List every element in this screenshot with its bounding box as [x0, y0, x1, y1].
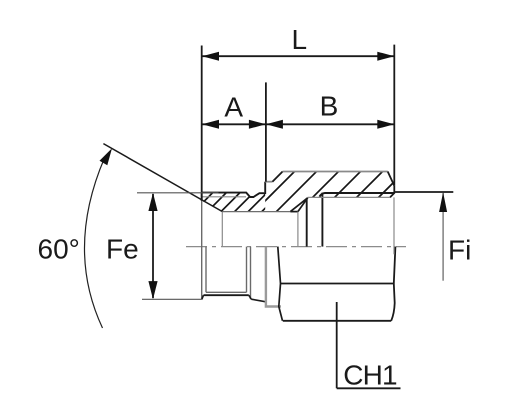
washer face top: [264, 182, 266, 194]
hex lower-right silhouette: [391, 247, 395, 321]
chamfer edge circle: [205, 247, 207, 293]
svg-text:B: B: [320, 91, 339, 122]
drill cone V: [290, 198, 307, 212]
male thread OD bottom: [204, 294, 249, 296]
hex bottom: [283, 320, 391, 322]
face chamfer: [202, 295, 204, 299]
bore end circle edge: [297, 212, 299, 247]
Fe dimension: [137, 192, 219, 194]
60 degree arc with arrow: [84, 158, 104, 328]
female thread minor line: [308, 196, 390, 198]
male face lower: [201, 201, 203, 300]
thread end circle edge: [321, 193, 323, 247]
drill cone circle edge: [306, 198, 308, 246]
centerline: [186, 246, 406, 248]
svg-text:A: A: [224, 91, 243, 122]
svg-text:L: L: [292, 24, 308, 55]
svg-text:Fe: Fe: [106, 234, 139, 265]
cone tip circle edge: [221, 212, 223, 247]
L extension lines: [201, 46, 203, 201]
svg-text:CH1: CH1: [343, 359, 397, 390]
face inner edge gray: [393, 197, 395, 254]
L dimension line: [202, 55, 394, 57]
washer silhouette lower: [266, 247, 281, 307]
female face: [390, 186, 394, 198]
male thread root bottom: [206, 291, 247, 293]
hatching left group: [165, 140, 333, 240]
hex top edge: [283, 171, 388, 173]
thread end edges: [246, 247, 248, 293]
B dimension line: [266, 123, 394, 125]
hatching right group: [226, 140, 436, 240]
female thread major line with runout: [320, 193, 395, 197]
bore line: [222, 211, 290, 213]
male thread OD top: [202, 193, 266, 197]
washer top edge: [265, 181, 272, 183]
60 deg cone construction line: [103, 144, 222, 212]
hex right chamfer: [388, 172, 395, 186]
hex lower-left silhouette: [278, 247, 283, 321]
svg-text:Fi: Fi: [448, 235, 471, 266]
washer-to-hex chamfer: [272, 172, 282, 182]
hex facet line: [280, 283, 394, 285]
Fi dimension: [395, 191, 454, 193]
A dimension line: [202, 123, 266, 125]
thread end chamfer: [249, 295, 251, 299]
CH1 leader: [336, 302, 338, 388]
svg-text:60°: 60°: [38, 234, 80, 265]
runout cone silhouette: [251, 299, 266, 302]
male thread root line top (thin): [203, 196, 247, 198]
male face: [201, 193, 203, 201]
